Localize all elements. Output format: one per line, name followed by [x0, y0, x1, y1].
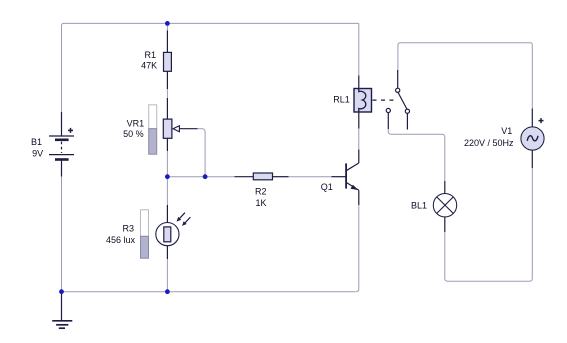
svg-text:R2: R2 [255, 186, 267, 196]
svg-text:456 lux: 456 lux [106, 235, 136, 245]
svg-text:R1: R1 [144, 50, 156, 60]
svg-text:R3: R3 [122, 224, 134, 234]
svg-text:Q1: Q1 [321, 182, 333, 192]
svg-text:RL1: RL1 [333, 95, 350, 105]
svg-text:1K: 1K [255, 198, 266, 208]
svg-text:VR1: VR1 [127, 119, 145, 129]
svg-text:BL1: BL1 [411, 200, 427, 210]
svg-text:V1: V1 [501, 126, 512, 136]
svg-text:9V: 9V [32, 148, 43, 158]
svg-text:220V / 50Hz: 220V / 50Hz [464, 138, 514, 148]
svg-text:B1: B1 [31, 137, 42, 147]
svg-text:47K: 47K [141, 61, 157, 71]
svg-text:50 %: 50 % [123, 129, 144, 139]
